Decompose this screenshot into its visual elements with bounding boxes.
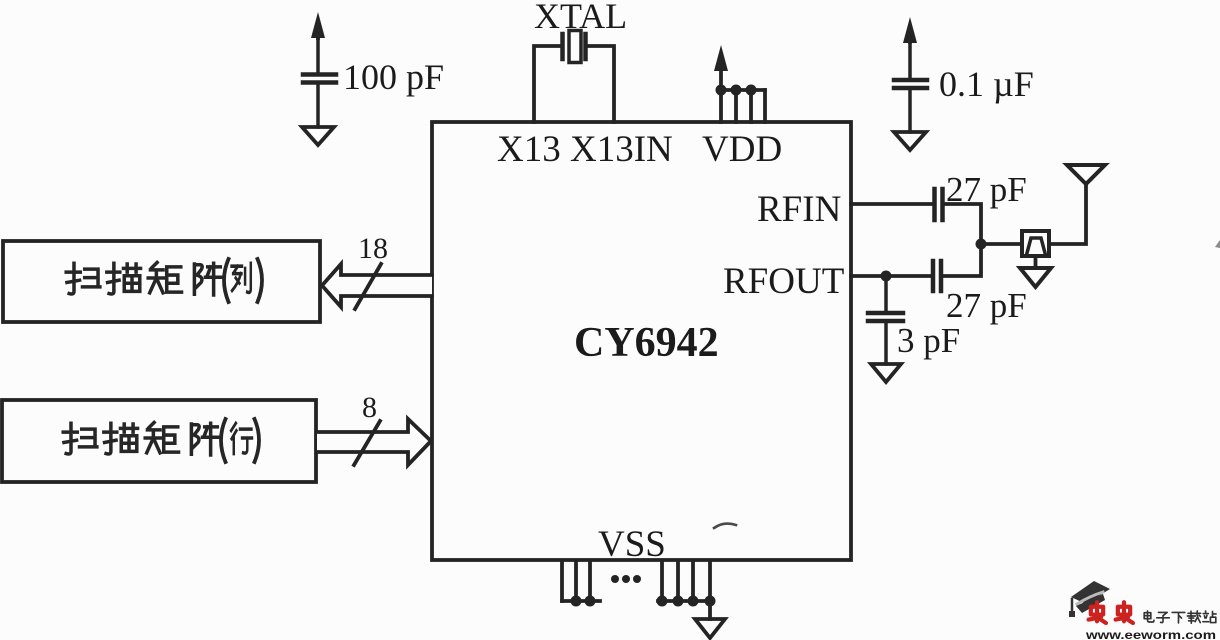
wire C4 to node A (941, 244, 981, 276)
VSS pin group right (658, 561, 710, 601)
wire J1 to ground (1034, 256, 1038, 268)
capacitor C3 27 pF body (935, 189, 943, 220)
VDD pin wires (719, 90, 765, 122)
svg-text:VSS: VSS (598, 524, 666, 565)
junction dots VSS right (657, 596, 716, 607)
wire VSS to ground (708, 601, 712, 619)
crystal X1 symbol (563, 31, 586, 63)
ellipsis between VSS groups (611, 575, 641, 583)
block text scan matrix (rows) (63, 419, 259, 462)
wire J1 to antenna (1049, 183, 1086, 244)
scan artifact wedge right edge (1215, 240, 1220, 248)
logo text site name (1144, 611, 1216, 623)
svg-text:VDD: VDD (702, 129, 782, 170)
ground below C2 (894, 132, 926, 150)
svg-text:CY6942: CY6942 (574, 320, 719, 366)
VDD arrow above C1 (316, 22, 320, 38)
capacitor C5 3 pF body (868, 276, 903, 364)
wire RFOUT from IC (851, 274, 932, 278)
svg-text:27 pF: 27 pF (946, 286, 1027, 325)
junction dots VSS left (571, 596, 596, 607)
ground below C5 (871, 364, 901, 382)
svg-text:RFOUT: RFOUT (723, 261, 844, 302)
logo graduation cap (1069, 581, 1110, 617)
VSS pin group left (562, 561, 600, 601)
block box scan matrix columns (3, 241, 320, 322)
capacitor C2 0.1 uF body (894, 40, 927, 132)
bus slash 18 (355, 264, 381, 309)
ground below J1 (1020, 268, 1051, 287)
svg-text:8: 8 (362, 391, 377, 424)
junction dots on VDD rail (716, 85, 757, 96)
wire C3 to node A (943, 204, 982, 246)
block box scan matrix rows (2, 400, 316, 482)
antenna E1 (1067, 165, 1105, 184)
wire node A to connector J1 (981, 242, 1022, 246)
wire RFIN from IC (851, 202, 932, 206)
svg-text:27 pF: 27 pF (946, 170, 1027, 209)
VDD arrow (719, 70, 723, 90)
capacitor C1 100 pF body (303, 36, 336, 127)
IC U1 CY6942 body (432, 122, 851, 560)
ground below C1 (302, 127, 334, 145)
wire XTAL right leg (587, 46, 614, 122)
block text scan matrix (columns) (66, 259, 262, 302)
bus 18-bit to columns box (322, 264, 432, 307)
bus 8-bit from rows box (317, 419, 431, 465)
junction dot RFOUT node (881, 271, 892, 282)
junction dot node A (976, 239, 987, 250)
scan artifact squiggle (714, 524, 736, 528)
svg-text:X13 X13IN: X13 X13IN (497, 129, 673, 170)
connector J1 body (1022, 231, 1049, 256)
svg-text:RFIN: RFIN (757, 189, 841, 230)
ground below VSS (695, 619, 725, 638)
wire XTAL left leg (534, 46, 561, 122)
bus slash 8 (354, 421, 380, 465)
svg-text:100 pF: 100 pF (343, 57, 444, 97)
logo text chongchong (1089, 602, 1133, 623)
VDD arrow above C2 (908, 28, 912, 42)
capacitor C4 27 pF body (933, 261, 941, 291)
svg-text:0.1 µF: 0.1 µF (939, 64, 1034, 104)
svg-text:3 pF: 3 pF (897, 321, 960, 360)
svg-text:www.eeworm.com: www.eeworm.com (1085, 630, 1216, 640)
svg-text:18: 18 (358, 232, 388, 265)
